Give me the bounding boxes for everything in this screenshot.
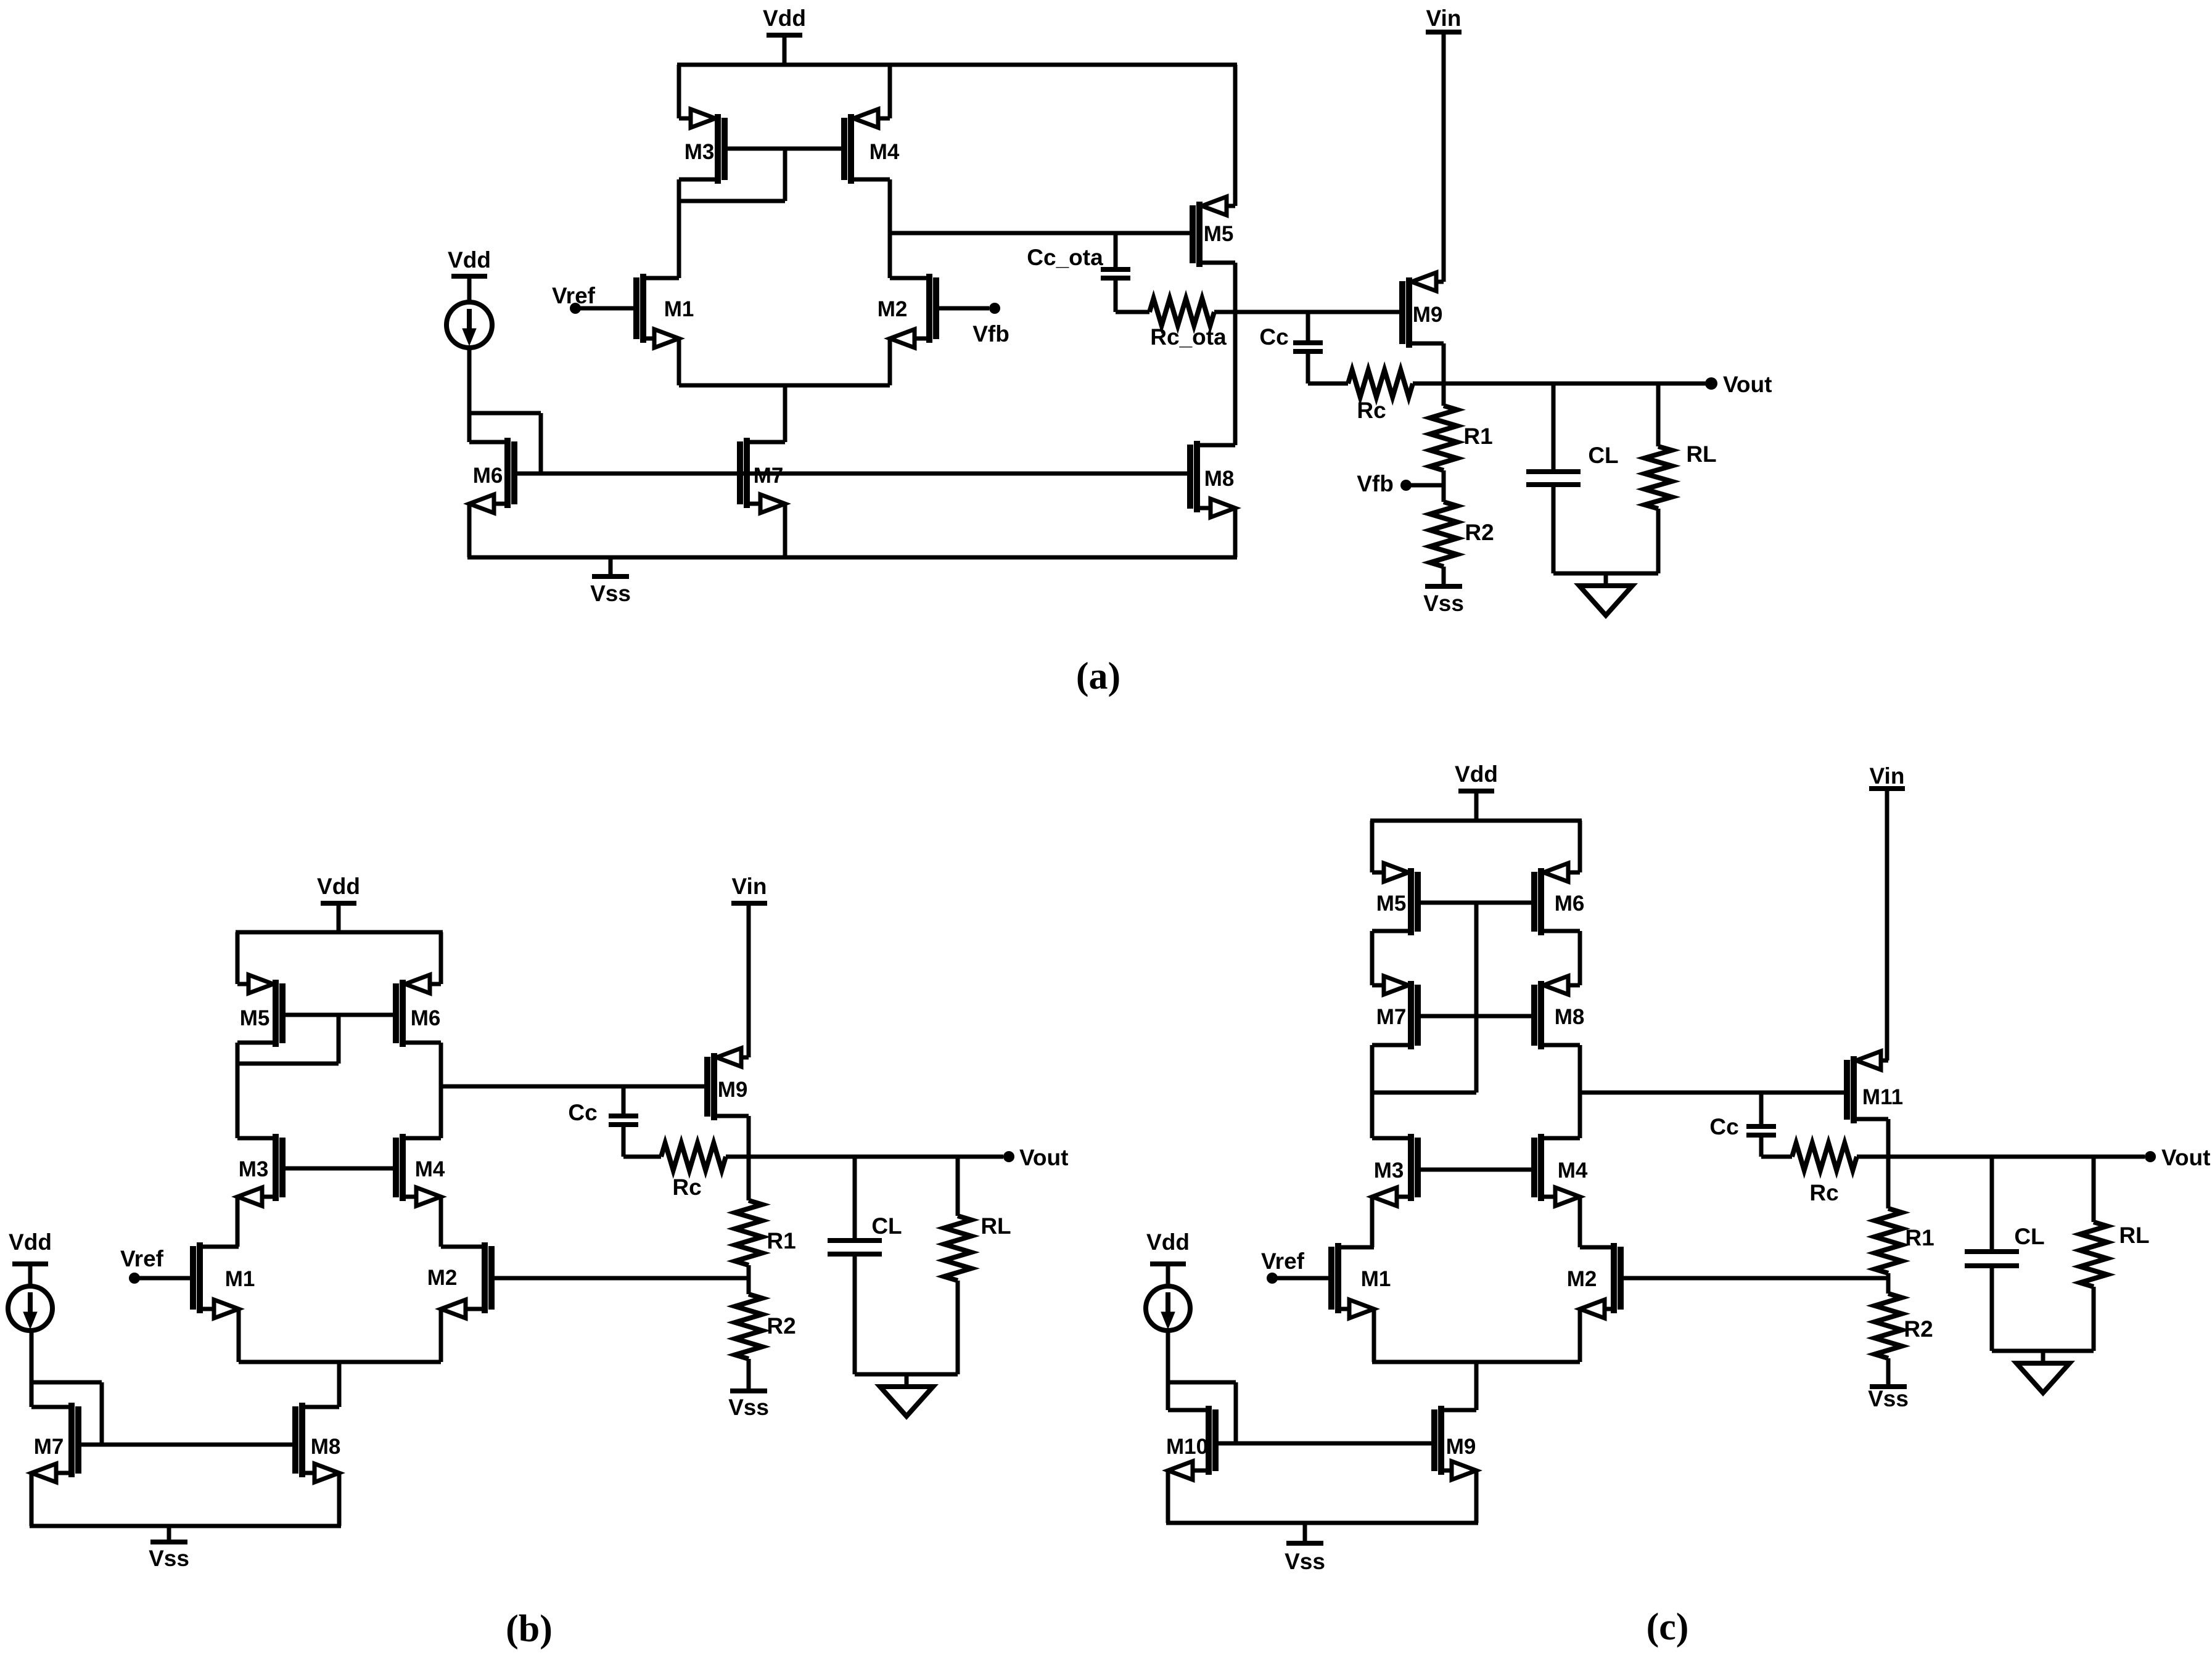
transistor M1 — [193, 1242, 255, 1318]
resistor RL — [1645, 383, 1717, 573]
transistor M1 — [636, 274, 694, 348]
wire diff-pair tail bus — [239, 1360, 441, 1364]
svg-text:M3: M3 — [685, 140, 715, 164]
wire M6 drain to M8 source — [1578, 931, 1582, 985]
wire M2 gate to feedback divider — [491, 1276, 749, 1281]
node Vref input with terminal dot — [552, 283, 636, 314]
svg-text:M8: M8 — [1204, 467, 1235, 491]
transistor M2 — [1567, 1243, 1621, 1318]
svg-text:M5: M5 — [1376, 892, 1407, 916]
capacitor CL — [828, 1157, 902, 1374]
wire M5 diode connection — [237, 1015, 339, 1064]
power symbol Vin — [731, 874, 767, 1057]
resistor Rc_ota — [1116, 298, 1233, 350]
wire M5 drain to M7 source — [1370, 931, 1375, 985]
wire tail to M9 drain — [1474, 1362, 1479, 1410]
power symbol Vss — [590, 557, 631, 606]
transistor M5 — [1372, 863, 1418, 935]
resistor RL — [944, 1157, 1011, 1374]
power symbol Vss — [149, 1526, 189, 1571]
wire M8 source to Vss rail — [1233, 508, 1238, 557]
svg-text:Vref: Vref — [120, 1246, 164, 1271]
wire M2 source down to tail — [888, 338, 892, 385]
wire M5 drain to M3 source — [236, 1043, 240, 1138]
wire diff-pair tail bus — [1372, 1360, 1580, 1364]
capacitor Cc — [1709, 1093, 1776, 1157]
resistor R1 — [1875, 1157, 1934, 1278]
wire M1 source to tail — [237, 1309, 241, 1362]
capacitor CL — [1965, 1157, 2045, 1351]
svg-text:M7: M7 — [34, 1435, 64, 1459]
svg-text:M8: M8 — [1555, 1005, 1585, 1029]
transistor M6 — [396, 975, 441, 1047]
svg-text:(c): (c) — [1647, 1606, 1689, 1648]
wire M6 diode connection — [469, 413, 541, 474]
transistor M3 — [237, 1134, 282, 1206]
svg-text:RL: RL — [2119, 1223, 2149, 1248]
wire OTA output to M11 gate — [1580, 1091, 1846, 1095]
wire M8 drain to M4 source — [1578, 1045, 1582, 1138]
resistor RL — [2080, 1157, 2150, 1351]
svg-text:R1: R1 — [767, 1228, 796, 1253]
wire NMOS mirror gate bus M6-M7-M8 — [515, 472, 1190, 476]
current source Ibias — [8, 1286, 52, 1331]
wire M10 diode connection — [1168, 1382, 1236, 1443]
svg-text:Vdd: Vdd — [763, 6, 806, 31]
transistor M4 — [396, 1134, 445, 1206]
svg-text:Vss: Vss — [1285, 1549, 1325, 1574]
transistor M8 — [1190, 441, 1235, 517]
wire M4 drain to M2 drain — [439, 1197, 443, 1247]
svg-text:Vss: Vss — [149, 1546, 189, 1571]
svg-text:M4: M4 — [1558, 1159, 1588, 1183]
power symbol Vss (divider) — [1868, 1386, 1909, 1411]
wire M9-M10 gate bus — [1215, 1442, 1434, 1446]
svg-text:CL: CL — [2014, 1224, 2044, 1249]
wire M5 drain to M8 drain — [1233, 263, 1238, 445]
transistor M11 — [1847, 1051, 1903, 1123]
transistor M4 — [844, 109, 900, 184]
wire M3-M4 gate bus — [725, 147, 844, 151]
svg-text:M1: M1 — [225, 1267, 255, 1291]
ground symbol — [1579, 573, 1632, 615]
resistor R2 — [1430, 485, 1494, 585]
ground symbol — [880, 1374, 933, 1416]
wire M3 drain to M1 drain — [236, 1197, 240, 1247]
wire Vdd top rail — [1370, 819, 1582, 823]
wire M5-M6 gate bus — [1418, 901, 1534, 905]
wire cascode gate bias column — [1474, 903, 1479, 1093]
capacitor Cc_ota — [1027, 233, 1130, 312]
wire OTA output to M9 gate — [1235, 310, 1401, 314]
node Vout rail with terminal dot — [1888, 1145, 2210, 1170]
transistor M2 — [427, 1242, 491, 1318]
transistor M7 — [1372, 976, 1418, 1049]
svg-text:M5: M5 — [1204, 222, 1234, 246]
wire M5 source to rail — [236, 932, 240, 984]
svg-text:Vfb: Vfb — [972, 321, 1009, 347]
transistor M3 — [1372, 1134, 1418, 1206]
svg-text:R1: R1 — [1463, 424, 1492, 449]
svg-text:M3: M3 — [1374, 1159, 1404, 1183]
svg-text:M2: M2 — [878, 297, 908, 321]
wire M11 drain to output rail — [1886, 1119, 1891, 1157]
wire M6 drain to M4 source — [439, 1043, 443, 1138]
svg-text:Cc: Cc — [568, 1100, 597, 1125]
transistor M1 — [1331, 1243, 1391, 1318]
resistor R1 — [735, 1157, 796, 1278]
svg-text:M9: M9 — [1446, 1435, 1476, 1459]
wire M5 gate to second-stage input — [890, 231, 1192, 236]
transistor M6 — [469, 438, 514, 513]
wire load bottom — [855, 1372, 958, 1377]
wire M7 source to Vss rail — [30, 1473, 34, 1526]
transistor M8 — [295, 1403, 340, 1482]
resistor R2 — [735, 1278, 796, 1390]
svg-text:R2: R2 — [767, 1313, 796, 1339]
svg-text:(a): (a) — [1076, 655, 1120, 697]
transistor M6 — [1534, 863, 1584, 935]
svg-text:M6: M6 — [1555, 892, 1585, 916]
svg-text:M9: M9 — [718, 1078, 748, 1102]
wire M9 drain to output rail — [747, 1116, 751, 1157]
wire Vss rail — [1166, 1521, 1478, 1525]
node Vout rail with terminal dot — [1444, 372, 1772, 397]
wire M3 drain to M1 drain — [1370, 1197, 1375, 1247]
wire M2 source to tail — [439, 1309, 443, 1362]
svg-text:M6: M6 — [473, 464, 503, 488]
svg-text:Rc: Rc — [672, 1175, 701, 1200]
svg-text:Vout: Vout — [1723, 372, 1772, 397]
svg-text:M2: M2 — [427, 1266, 458, 1290]
svg-text:R2: R2 — [1465, 520, 1494, 545]
wire M7 drain to M3 source — [1370, 1045, 1375, 1138]
transistor M8 — [1534, 976, 1584, 1049]
wire M1 source to tail — [1372, 1309, 1376, 1362]
resistor Rc — [1308, 370, 1444, 423]
transistor M3 — [679, 109, 725, 184]
transistor M9 — [707, 1048, 749, 1120]
transistor M5 — [1193, 197, 1235, 267]
wire load bottom — [1992, 1349, 2094, 1353]
svg-text:M4: M4 — [415, 1157, 445, 1181]
node Vref input with terminal dot — [120, 1246, 192, 1284]
svg-text:Rc: Rc — [1357, 398, 1386, 423]
svg-text:Vin: Vin — [1426, 6, 1462, 31]
svg-text:R2: R2 — [1904, 1316, 1933, 1342]
transistor M7 — [740, 438, 785, 513]
node Vfb at M2 gate — [936, 303, 1009, 347]
transistor M5 — [237, 975, 282, 1047]
svg-text:Cc: Cc — [1259, 324, 1288, 350]
wire Vdd top rail — [677, 63, 1237, 67]
ground symbol — [2017, 1351, 2070, 1393]
power symbol Vdd (bias current source) — [448, 247, 491, 302]
wire M7-M8 gate bus — [78, 1443, 295, 1447]
wire M6 source to rail — [439, 932, 443, 984]
resistor R1 — [1430, 383, 1493, 485]
wire M5 source to rail — [1233, 65, 1238, 206]
wire M1 source down to tail — [677, 338, 681, 385]
svg-text:Rc: Rc — [1809, 1180, 1838, 1205]
transistor M10 — [1166, 1406, 1215, 1480]
wire M4 drain to M2 drain — [888, 179, 892, 278]
wire diff-pair tail bus — [679, 383, 890, 388]
wire M5 source to rail — [1370, 821, 1375, 872]
svg-text:Vss: Vss — [1423, 591, 1464, 616]
svg-text:Vdd: Vdd — [1146, 1229, 1190, 1255]
current source Ibias — [1146, 1286, 1190, 1331]
svg-text:M9: M9 — [1413, 303, 1443, 327]
wire M5-M6 gate bus — [282, 1013, 396, 1017]
svg-text:M8: M8 — [311, 1435, 341, 1459]
power symbol Vdd (top of circuit a) — [763, 6, 806, 65]
wire M9 source to Vss rail — [1474, 1470, 1479, 1523]
svg-text:Vdd: Vdd — [317, 874, 360, 899]
svg-text:R1: R1 — [1905, 1225, 1934, 1250]
svg-text:CL: CL — [871, 1213, 902, 1239]
wire M2 source to tail — [1578, 1309, 1582, 1362]
power symbol Vdd (bias current source) — [9, 1229, 52, 1286]
transistor M4 — [1534, 1134, 1588, 1206]
current source Ibias — [446, 302, 492, 348]
svg-text:M1: M1 — [1361, 1267, 1391, 1291]
wire M9 drain to output rail — [1442, 343, 1446, 383]
wire tail to M8 drain — [337, 1362, 342, 1407]
svg-text:M3: M3 — [239, 1157, 269, 1181]
wire M3-M4 gate bus — [282, 1167, 396, 1171]
wire M3-M4 gate bus — [1418, 1168, 1534, 1172]
transistor M9 — [1434, 1406, 1476, 1480]
svg-text:Rc_ota: Rc_ota — [1150, 324, 1227, 350]
wire current source to M6 drain — [467, 348, 472, 442]
power symbol Vss (divider) — [728, 1391, 769, 1420]
svg-text:RL: RL — [1686, 441, 1716, 467]
svg-text:M4: M4 — [870, 140, 900, 164]
svg-text:Vref: Vref — [1261, 1249, 1305, 1274]
wire gate bias to left cascode node — [1372, 1091, 1476, 1095]
power symbol Vin — [1426, 6, 1462, 282]
svg-text:M1: M1 — [664, 297, 694, 321]
svg-text:Vdd: Vdd — [9, 1229, 52, 1255]
wire Vss rail — [30, 1524, 341, 1528]
svg-text:(b): (b) — [506, 1608, 553, 1650]
power symbol Vdd (bias current source) — [1146, 1229, 1190, 1286]
svg-text:Cc_ota: Cc_ota — [1027, 245, 1103, 270]
svg-text:M11: M11 — [1862, 1085, 1903, 1109]
resistor Rc — [623, 1143, 749, 1200]
svg-text:Vout: Vout — [2161, 1145, 2210, 1170]
svg-text:Vdd: Vdd — [448, 247, 491, 273]
power symbol Vss — [1285, 1523, 1325, 1574]
wire current source to M10 drain — [1166, 1330, 1170, 1410]
wire M6 source to rail — [1578, 821, 1582, 872]
wire tail to M7 drain — [783, 385, 787, 442]
wire M6 source to Vss rail — [467, 504, 472, 557]
svg-text:Vss: Vss — [590, 581, 631, 606]
svg-text:Vss: Vss — [1868, 1386, 1909, 1411]
wire M3 source to rail — [677, 65, 681, 118]
node Vout rail with terminal dot — [749, 1145, 1068, 1170]
wire load bottom — [1553, 572, 1658, 576]
resistor R2 — [1875, 1278, 1933, 1385]
wire M4 source to rail — [888, 65, 892, 118]
svg-text:Vss: Vss — [728, 1395, 769, 1420]
wire Vdd top rail — [236, 930, 443, 935]
wire M4 drain to M2 drain — [1578, 1197, 1582, 1247]
power symbol Vdd (top of circuit c) — [1455, 761, 1498, 821]
capacitor Cc — [1259, 312, 1323, 383]
transistor M2 — [878, 274, 936, 348]
transistor M7 — [31, 1403, 78, 1482]
svg-text:Cc: Cc — [1709, 1114, 1738, 1139]
wire M8 source to Vss rail — [337, 1473, 342, 1526]
wire M3 diode connection — [679, 149, 785, 201]
svg-text:Vin: Vin — [732, 874, 767, 899]
svg-text:CL: CL — [1588, 443, 1618, 468]
wire M2 gate to feedback divider — [1621, 1276, 1888, 1281]
svg-text:Vref: Vref — [552, 283, 596, 308]
svg-text:Vdd: Vdd — [1455, 761, 1498, 787]
capacitor CL — [1526, 383, 1619, 573]
svg-text:M6: M6 — [411, 1006, 441, 1030]
resistor Rc — [1761, 1143, 1888, 1205]
svg-text:M5: M5 — [240, 1006, 270, 1030]
wire current source to M7 drain — [30, 1330, 34, 1407]
power symbol Vin — [1869, 763, 1905, 1060]
node Vref input with terminal dot — [1261, 1249, 1331, 1284]
wire OTA output to M9 gate — [441, 1085, 706, 1089]
power symbol Vdd (top of circuit b) — [317, 874, 360, 932]
svg-text:Vout: Vout — [1019, 1145, 1068, 1170]
transistor M9 — [1402, 273, 1444, 348]
svg-text:M2: M2 — [1567, 1267, 1597, 1291]
svg-text:RL: RL — [981, 1213, 1011, 1239]
svg-text:M7: M7 — [1376, 1005, 1407, 1029]
svg-text:M10: M10 — [1166, 1435, 1208, 1459]
capacitor Cc — [568, 1086, 638, 1157]
wire M7 diode connection — [31, 1382, 102, 1445]
wire M3 drain to M1 drain — [677, 179, 681, 278]
wire Vss rail — [467, 556, 1237, 560]
wire M7-M8 gate bus — [1418, 1014, 1534, 1019]
svg-text:Vfb: Vfb — [1357, 471, 1394, 496]
node Vfb tap on divider — [1357, 471, 1444, 496]
wire M7 source to Vss rail — [783, 504, 787, 557]
wire M10 source to Vss rail — [1166, 1470, 1170, 1523]
power symbol Vss (divider) — [1423, 586, 1464, 616]
svg-text:Vin: Vin — [1870, 763, 1905, 789]
